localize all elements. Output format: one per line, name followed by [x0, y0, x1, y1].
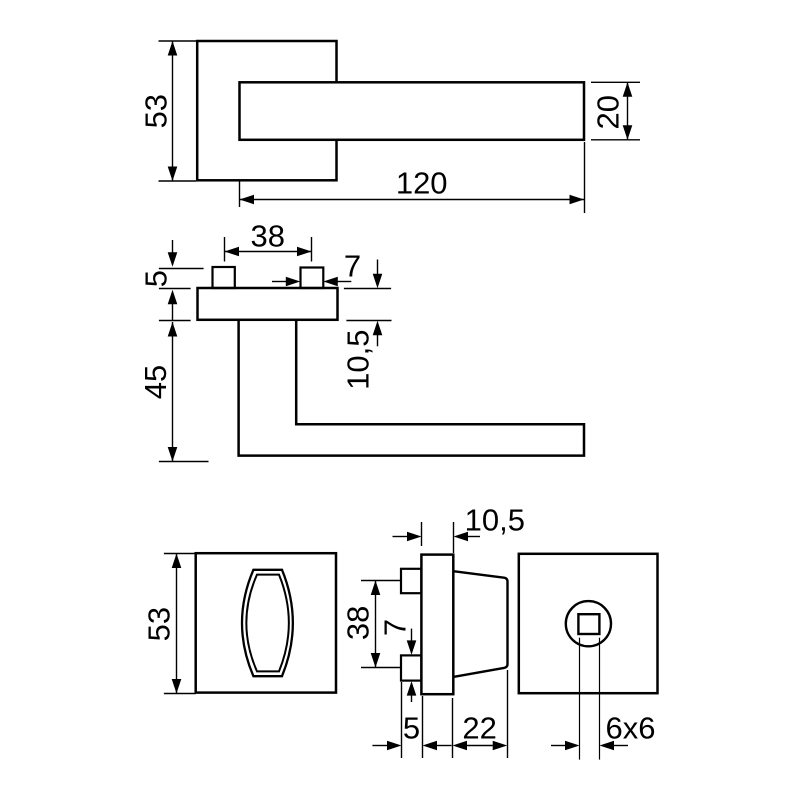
svg-text:38: 38 — [251, 218, 285, 253]
svg-text:7: 7 — [344, 249, 361, 284]
svg-text:38: 38 — [340, 606, 375, 640]
svg-text:45: 45 — [138, 365, 173, 399]
svg-text:6x6: 6x6 — [606, 711, 656, 746]
svg-text:22: 22 — [462, 710, 496, 745]
svg-text:53: 53 — [138, 94, 173, 128]
svg-text:5: 5 — [403, 710, 420, 745]
svg-text:53: 53 — [142, 607, 177, 641]
svg-text:10,5: 10,5 — [341, 330, 376, 390]
svg-text:20: 20 — [591, 95, 626, 129]
svg-text:7: 7 — [378, 619, 413, 636]
svg-text:120: 120 — [396, 166, 448, 201]
svg-text:10,5: 10,5 — [465, 502, 525, 537]
svg-text:5: 5 — [138, 270, 173, 287]
